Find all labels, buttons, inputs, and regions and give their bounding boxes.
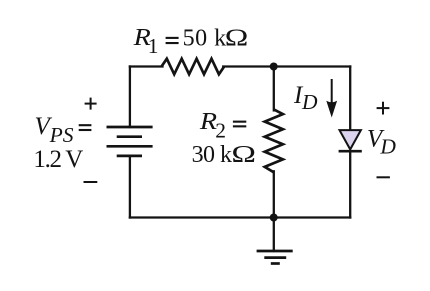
svg-text:D: D (379, 134, 396, 158)
svg-text:1.2 V: 1.2 V (33, 146, 83, 173)
svg-text:50 k: 50 k (183, 25, 227, 51)
svg-text:30 k: 30 k (192, 142, 232, 168)
svg-text:Ω: Ω (225, 25, 249, 51)
svg-text:1: 1 (148, 34, 159, 58)
svg-text:D: D (301, 90, 318, 114)
svg-text:PS: PS (49, 123, 74, 147)
svg-text:2: 2 (215, 118, 226, 142)
svg-text:Ω: Ω (231, 141, 256, 168)
